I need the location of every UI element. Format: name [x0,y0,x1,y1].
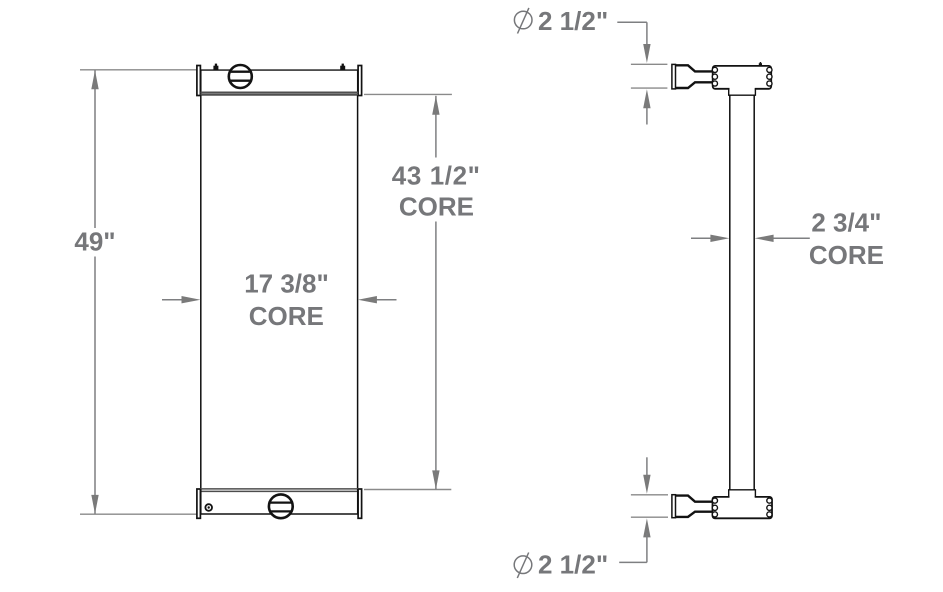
svg-text:2 1/2": 2 1/2" [538,6,608,36]
radiator front view: filler cap [228,65,253,88]
radiator front view: top tank left mounting bolt [213,64,218,71]
radiator front view: top tank left flange [197,66,201,96]
side view: core left edge [729,95,731,489]
svg-text:2 1/2": 2 1/2" [538,550,608,580]
side view: core right edge [753,95,755,489]
side view: top tank bolt circles right column [767,67,772,86]
dimension top pipe diameter: leader line [617,22,650,63]
dimension 43 1/2 core: value label [392,160,481,221]
dimension top pipe diameter: lower arrow [643,89,650,124]
side view: bottom tank bolt circles right column [767,498,772,517]
side view: top tank bolt [759,62,762,66]
dimension 43 1/2 core: top extension line [364,93,452,95]
side view: bottom outlet pipe flange [672,495,676,518]
side view: bottom tank bolt circles left column [712,498,717,517]
side view: top inlet pipe flange [672,64,676,89]
svg-text:2 3/4": 2 3/4" [811,207,881,237]
radiator front view: drain cap [268,494,294,518]
side view: bottom outlet pipe [676,496,713,517]
radiator front view: top tank right flange [358,66,362,96]
dimension 17 3/8 core: right arrow [358,296,397,303]
svg-text:CORE: CORE [399,191,474,221]
dimension bottom pipe diameter: extension lines [631,495,668,517]
dimension bottom pipe diameter 2 1/2: value label with diameter symbol [514,550,608,580]
radiator front view: petcock fitting [205,504,212,511]
dimension 17 3/8 core: left arrow [162,296,201,303]
dimension top pipe diameter 2 1/2: value label with diameter symbol [514,6,608,36]
dimension bottom pipe diameter: upper arrow [643,457,650,494]
radiator front view: top tank body [200,70,358,95]
dimension 17 3/8 core: value label [244,269,329,332]
dimension 43 1/2 core: vertical dimension line with arrowheads [432,96,439,490]
svg-text:43 1/2": 43 1/2" [392,160,481,190]
radiator front view: core right edge [357,95,359,489]
side view: bottom tank [713,490,773,519]
side view: top tank [713,66,772,95]
dimension bottom pipe diameter: lower arrow and leader [619,518,650,562]
dimension 2 3/4 core: left arrow [691,235,729,242]
dimension 49 inch: vertical dimension line with arrowheads [91,70,98,514]
dimension 49 inch: bottom extension line [80,513,198,515]
radiator front view: core left edge [200,95,202,489]
side view: top tank bolt circles left column [712,67,717,86]
radiator front view: bottom tank left flange [197,489,201,518]
dimension 2 3/4 core: right arrow [755,235,810,242]
radiator front view: bottom tank body [200,489,358,514]
svg-text:17 3/8": 17 3/8" [244,269,329,299]
dimension 43 1/2 core: bottom extension line [364,489,451,491]
side view: top inlet pipe [676,65,713,88]
dimension 49 inch: top extension line [80,69,197,71]
svg-text:CORE: CORE [249,301,324,331]
radiator front view: top tank right mounting bolt [340,64,345,71]
dimension top pipe diameter: extension lines [631,64,668,88]
svg-text:CORE: CORE [809,240,884,270]
radiator front view: bottom tank right flange [358,489,362,518]
svg-text:49": 49" [74,226,115,256]
dimension 49 inch: value label [74,226,115,256]
dimension 2 3/4 core: value label [809,207,884,270]
